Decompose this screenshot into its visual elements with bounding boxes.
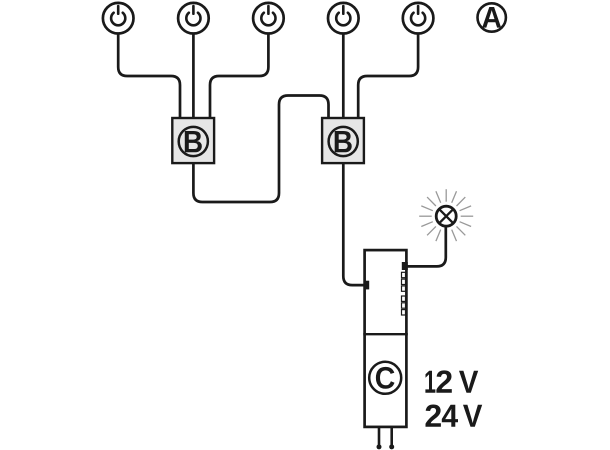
label 24 V bbox=[426, 405, 483, 427]
wire from pushbutton 5 to unit B2 bbox=[358, 33, 418, 119]
wire from device C output to lamp bbox=[405, 227, 446, 266]
device C left input pin bbox=[364, 281, 370, 290]
marker A bbox=[478, 3, 506, 31]
device C body bbox=[365, 250, 407, 427]
wire from pushbutton 2 to unit B1 bbox=[192, 33, 195, 119]
wire from pushbutton 1 to unit B1 bbox=[118, 33, 180, 119]
pushbutton 2 bbox=[178, 3, 209, 34]
marker C bbox=[369, 362, 401, 394]
wire from unit B1 output to unit B2 input bbox=[193, 96, 328, 203]
device C right output pin bbox=[402, 262, 408, 270]
control unit B1 bbox=[172, 118, 214, 163]
control unit B2 bbox=[322, 118, 364, 163]
device C mains prong right bbox=[389, 428, 394, 450]
pushbutton 3 bbox=[253, 3, 284, 34]
pushbutton 4 bbox=[328, 3, 359, 34]
label 12 V bbox=[425, 370, 478, 392]
wire from pushbutton 4 to unit B2 bbox=[342, 33, 345, 119]
wire from pushbutton 3 to unit B1 bbox=[210, 33, 268, 119]
wire from unit B2 output to device C input bbox=[343, 164, 365, 285]
lamp bbox=[436, 206, 456, 226]
device C mains prong left bbox=[377, 428, 382, 450]
pushbutton 5 bbox=[403, 3, 434, 34]
lamp rays bbox=[419, 189, 473, 241]
device C terminal strip bbox=[402, 272, 406, 315]
device C divider bbox=[363, 333, 408, 335]
pushbutton 1 bbox=[103, 3, 134, 34]
